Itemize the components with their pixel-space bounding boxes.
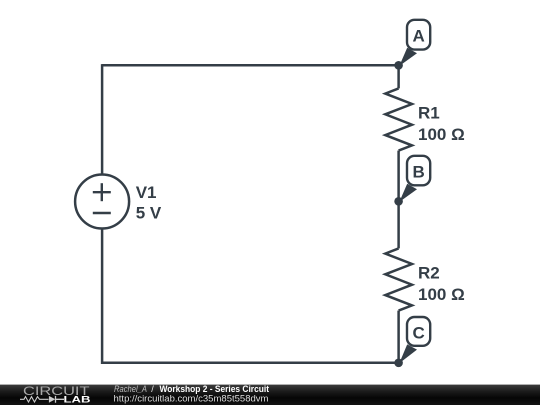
wire top horizontal — [102, 64, 399, 67]
node B dot — [394, 197, 403, 206]
node C label box — [407, 317, 430, 346]
wire left upper vertical — [101, 64, 104, 175]
node B flag tail — [399, 184, 417, 202]
resistor R1 — [385, 88, 412, 150]
wire bottom horizontal — [102, 362, 399, 365]
logo diode bar and wire to LAB — [56, 396, 65, 403]
svg-text:http://circuitlab.com/c35m85t5: http://circuitlab.com/c35m85t558dvm — [114, 394, 269, 404]
wire node A to R1 — [397, 65, 400, 88]
svg-text:100 Ω: 100 Ω — [418, 125, 465, 144]
node C dot — [394, 359, 403, 368]
node C flag tail — [399, 344, 417, 363]
resistor R2 — [385, 248, 412, 310]
svg-text:B: B — [412, 163, 424, 182]
voltage source V1 — [75, 175, 129, 229]
node A flag tail — [399, 48, 417, 66]
logo schematic line with resistor — [20, 397, 49, 402]
wire node B to R2 — [397, 201, 400, 248]
node A dot — [394, 61, 403, 70]
footer bar — [0, 385, 540, 405]
svg-text:R2: R2 — [418, 264, 440, 283]
wire R2 to node C — [397, 311, 400, 363]
node A label box — [407, 20, 430, 50]
svg-text:V1: V1 — [136, 183, 157, 202]
svg-text:100 Ω: 100 Ω — [418, 285, 465, 304]
logo diode symbol — [49, 396, 55, 403]
svg-text:5 V: 5 V — [136, 203, 162, 222]
svg-text:R1: R1 — [418, 104, 440, 123]
svg-text:C: C — [412, 323, 424, 342]
svg-text:A: A — [412, 27, 424, 46]
wire R1 to node B — [397, 151, 400, 202]
svg-text:LAB: LAB — [64, 395, 91, 405]
node B label box — [407, 156, 430, 186]
wire left lower vertical — [101, 228, 104, 364]
